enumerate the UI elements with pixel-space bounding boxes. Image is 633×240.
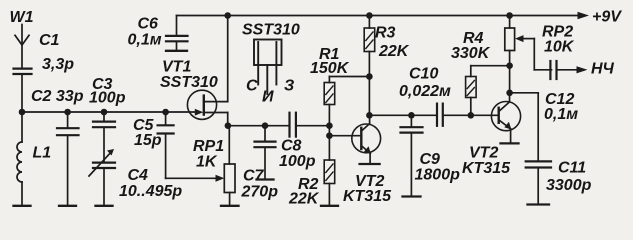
- potentiometer RP1: [221, 126, 239, 206]
- capacitor C12: [550, 61, 587, 79]
- svg-text:0,022м: 0,022м: [399, 83, 451, 100]
- node C3: [101, 109, 108, 116]
- svg-text:С: С: [246, 78, 258, 95]
- svg-text:22K: 22K: [378, 43, 410, 60]
- svg-text:330K: 330K: [451, 45, 491, 62]
- wire gate bus: [22, 111, 197, 113]
- capacitor C7: [255, 122, 276, 179]
- svg-text:150K: 150K: [310, 60, 350, 77]
- svg-text:270p: 270p: [241, 184, 279, 201]
- svg-text:L1: L1: [33, 145, 52, 162]
- capacitor C1: [14, 69, 32, 112]
- resistor R1: [324, 77, 369, 161]
- transistor VT1 (JFET): [187, 16, 227, 126]
- resistor R4: [466, 66, 510, 116]
- svg-text:1K: 1K: [196, 154, 218, 171]
- potentiometer RP2: [505, 16, 552, 93]
- svg-text:C10: C10: [409, 66, 438, 83]
- antenna W1: [15, 25, 29, 69]
- node VT1 drain rail: [224, 12, 231, 19]
- svg-text:10..495p: 10..495p: [119, 183, 182, 200]
- capacitor C2: [57, 112, 79, 206]
- node antenna/L1: [19, 109, 26, 116]
- node R3 rail: [366, 12, 373, 19]
- svg-text:C2 33p: C2 33p: [31, 88, 84, 105]
- svg-text:10K: 10K: [544, 39, 575, 56]
- node C11 branch: [506, 90, 513, 97]
- capacitor C6: [166, 16, 188, 51]
- node VT1 source: [225, 122, 232, 129]
- SST310 package drawing: [254, 40, 282, 95]
- node RP2 rail: [506, 12, 513, 19]
- svg-text:100p: 100p: [279, 153, 316, 170]
- svg-text:R3: R3: [375, 25, 396, 42]
- wire source line: [228, 125, 290, 127]
- svg-text:C11: C11: [558, 160, 586, 177]
- svg-text:VT1: VT1: [162, 59, 191, 76]
- wire stage2 line: [369, 114, 437, 116]
- svg-text:+9V: +9V: [592, 9, 622, 26]
- svg-text:100p: 100p: [89, 90, 126, 107]
- svg-text:SST310: SST310: [242, 22, 300, 39]
- svg-text:KT315: KT315: [343, 188, 392, 205]
- svg-text:0,1м: 0,1м: [544, 106, 578, 123]
- svg-text:15p: 15p: [134, 132, 162, 149]
- svg-text:3300p: 3300p: [546, 177, 592, 194]
- node C5: [162, 109, 169, 116]
- svg-text:C4: C4: [128, 167, 149, 184]
- svg-text:1800p: 1800p: [415, 167, 461, 184]
- node base tee: [326, 132, 333, 139]
- node C9: [408, 112, 415, 119]
- svg-text:C9: C9: [420, 151, 441, 168]
- variable capacitor C4: [89, 149, 115, 206]
- svg-text:НЧ: НЧ: [591, 61, 615, 78]
- node VT2a collector: [366, 112, 373, 119]
- svg-text:VT2: VT2: [469, 145, 498, 162]
- svg-text:З: З: [284, 78, 294, 95]
- transistor VT2 first stage: [352, 115, 381, 164]
- capacitor C10: [437, 104, 499, 126]
- svg-text:0,1м: 0,1м: [128, 32, 162, 49]
- wire +9V rail: [177, 12, 590, 19]
- node RP2 bottom / R4: [506, 62, 513, 69]
- svg-text:KT315: KT315: [462, 160, 511, 177]
- wire RP1 wiper: [166, 175, 225, 182]
- svg-text:3,3p: 3,3p: [42, 56, 74, 73]
- svg-text:W1: W1: [10, 9, 34, 26]
- svg-text:C8: C8: [281, 138, 302, 155]
- node C2: [64, 109, 71, 116]
- capacitor C11: [526, 161, 551, 204]
- svg-text:C7: C7: [243, 168, 265, 185]
- resistor R2: [321, 160, 338, 206]
- inductor L1: [14, 112, 31, 206]
- wire base VT2a: [329, 135, 360, 137]
- capacitor C5: [158, 112, 174, 178]
- wire C11 branch: [510, 93, 539, 161]
- node R4 bottom: [468, 112, 475, 119]
- resistor R3: [364, 16, 375, 116]
- capacitor C3: [93, 112, 115, 162]
- svg-text:RP1: RP1: [193, 138, 224, 155]
- svg-text:SST310: SST310: [160, 74, 218, 91]
- svg-text:И: И: [262, 89, 274, 106]
- node C8/R1/R2: [326, 122, 333, 129]
- transistor VT2 second stage: [491, 93, 520, 144]
- svg-text:C6: C6: [138, 16, 159, 33]
- svg-text:C1: C1: [39, 32, 60, 49]
- capacitor C8: [290, 113, 330, 137]
- capacitor C9: [401, 115, 423, 196]
- node R1 top on R3 line: [366, 73, 373, 80]
- svg-text:22K: 22K: [288, 191, 320, 208]
